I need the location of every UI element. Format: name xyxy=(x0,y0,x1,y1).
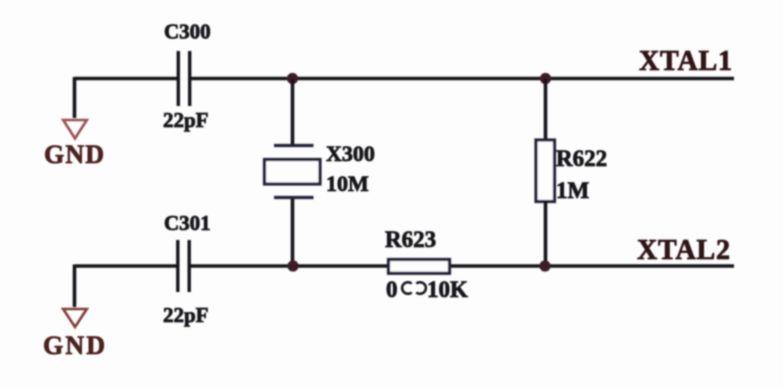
svg-text:XTAL2: XTAL2 xyxy=(637,235,730,266)
svg-text:0: 0 xyxy=(386,277,398,302)
wire bottom net XTAL2: left segment xyxy=(75,264,177,268)
resistor R622 body xyxy=(536,140,555,202)
svg-text:X300: X300 xyxy=(326,141,375,166)
svg-text:R623: R623 xyxy=(385,227,436,252)
wire crystal bottom lead xyxy=(291,199,295,266)
svg-text:GND: GND xyxy=(44,140,104,169)
wire left vertical stub to GND (bottom) xyxy=(73,265,77,308)
wire left vertical stub to GND (top) xyxy=(73,77,77,118)
wire R622 bottom lead xyxy=(544,201,548,266)
wire top net XTAL1: left segment xyxy=(75,77,178,81)
wire bottom net XTAL2: right segment xyxy=(450,264,734,268)
node junction bottom-left (crystal/XTAL2) xyxy=(287,260,298,271)
svg-text:R622: R622 xyxy=(556,146,607,171)
crystal X300 top plate xyxy=(274,144,314,147)
svg-text:C300: C300 xyxy=(164,20,211,44)
resistor R623 body xyxy=(389,260,450,274)
svg-text:10K: 10K xyxy=(427,277,468,302)
svg-text:C301: C301 xyxy=(164,211,211,235)
ground GND (top) triangle xyxy=(63,120,87,139)
svg-text:1M: 1M xyxy=(556,178,590,203)
crystal X300 body xyxy=(265,160,321,185)
capacitor C301 plate right xyxy=(187,240,190,292)
svg-text:10M: 10M xyxy=(326,171,369,196)
capacitor C301 plate left xyxy=(176,240,179,292)
crystal X300 bottom plate xyxy=(274,196,314,199)
svg-text:XTAL1: XTAL1 xyxy=(639,46,732,77)
svg-text:22pF: 22pF xyxy=(163,303,209,327)
wire top net XTAL1: right segment xyxy=(191,77,735,81)
capacitor C300 plate right xyxy=(188,51,191,106)
node junction top-right (R622/XTAL1) xyxy=(540,73,551,84)
wire bottom net XTAL2: middle segment xyxy=(189,264,388,268)
svg-text:22pF: 22pF xyxy=(163,108,209,132)
capacitor C300 plate left xyxy=(177,51,180,106)
ground GND (bottom) triangle xyxy=(63,309,87,327)
wire crystal top lead xyxy=(291,79,295,145)
svg-text:GND: GND xyxy=(43,331,105,360)
wire R622 top lead xyxy=(544,79,548,140)
node junction top-left (crystal/XTAL1) xyxy=(287,73,298,84)
node junction bottom-right (R622/XTAL2) xyxy=(539,260,550,271)
